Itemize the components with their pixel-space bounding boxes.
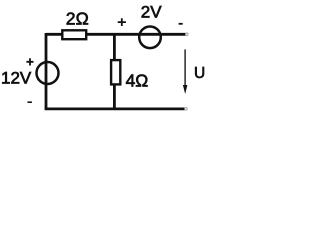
wire: middle vertical branch [113,34,116,109]
wire: left vertical branch [45,33,48,109]
polarity minus of V2 [179,23,183,25]
voltage source V2 2V (circle, top right) [139,27,161,49]
svg-text:2V: 2V [141,3,162,22]
terminal: top right open node [186,33,189,36]
polarity minus of V1 [28,101,32,103]
svg-text:U: U [194,65,205,82]
wire: top horizontal net [46,33,186,36]
resistor R2 4ohm (middle) [111,60,120,84]
arrow: voltage U direction [184,49,186,86]
svg-text:2Ω: 2Ω [66,8,89,28]
svg-text:4Ω: 4Ω [126,71,149,91]
svg-text:12V: 12V [1,68,32,87]
voltage source V1 12V (circle, left) [37,62,59,84]
terminal: bottom right open node [185,108,188,111]
wire: bottom horizontal net [45,108,185,111]
polarity plus of V1 [26,58,33,65]
resistor R1 2ohm (top) [62,30,86,39]
polarity plus of V2 [118,18,126,26]
